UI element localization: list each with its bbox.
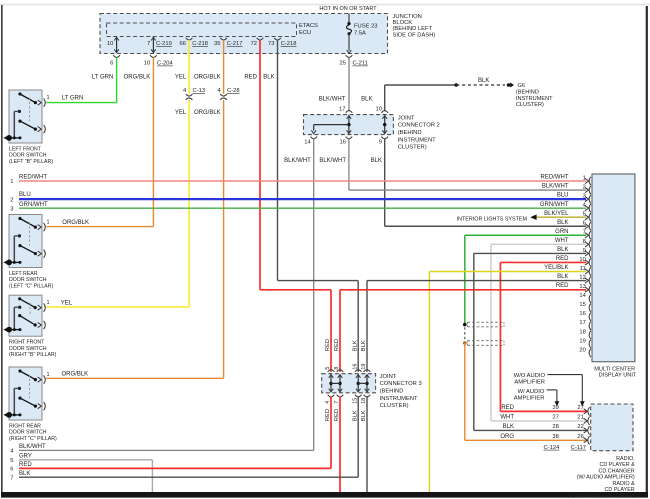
svg-text:10: 10 bbox=[107, 41, 113, 47]
svg-text:(BEHIND: (BEHIND bbox=[380, 389, 404, 395]
svg-text:ORG/BLK: ORG/BLK bbox=[124, 74, 151, 80]
svg-text:BLK: BLK bbox=[503, 424, 514, 430]
svg-text:21: 21 bbox=[577, 415, 583, 421]
svg-text:11: 11 bbox=[580, 266, 586, 272]
svg-text:RADIO &: RADIO & bbox=[613, 481, 636, 487]
svg-text:22: 22 bbox=[577, 424, 583, 430]
svg-text:19: 19 bbox=[361, 364, 367, 370]
svg-text:5: 5 bbox=[10, 458, 13, 464]
svg-text:C-211: C-211 bbox=[353, 61, 368, 67]
svg-text:ORG/BLK: ORG/BLK bbox=[62, 372, 89, 378]
svg-text:C-13: C-13 bbox=[193, 88, 206, 94]
svg-text:RED/WHT: RED/WHT bbox=[19, 174, 47, 180]
svg-text:WHT: WHT bbox=[500, 415, 514, 421]
svg-text:INTERIOR LIGHTS SYSTEM: INTERIOR LIGHTS SYSTEM bbox=[457, 216, 528, 222]
svg-text:13: 13 bbox=[579, 284, 585, 290]
svg-text:7.5A: 7.5A bbox=[354, 31, 366, 37]
svg-text:GRN/WHT: GRN/WHT bbox=[19, 202, 48, 208]
svg-text:(BEHIND: (BEHIND bbox=[398, 130, 422, 136]
svg-text:BLK: BLK bbox=[19, 471, 30, 477]
svg-text:CLUSTER): CLUSTER) bbox=[516, 102, 544, 108]
svg-text:BLK: BLK bbox=[371, 158, 382, 164]
svg-text:GRN/WHT: GRN/WHT bbox=[540, 202, 569, 208]
svg-text:8: 8 bbox=[334, 367, 340, 370]
svg-text:RED: RED bbox=[325, 339, 331, 351]
svg-text:AMPLIFIER: AMPLIFIER bbox=[514, 395, 545, 401]
svg-text:27: 27 bbox=[552, 415, 558, 421]
svg-text:10: 10 bbox=[376, 107, 382, 113]
svg-text:(LEFT "B" PILLAR): (LEFT "B" PILLAR) bbox=[9, 159, 53, 165]
svg-text:38: 38 bbox=[552, 434, 558, 440]
svg-text:16: 16 bbox=[340, 140, 346, 146]
svg-text:CD PLAYER: CD PLAYER bbox=[605, 487, 635, 493]
svg-text:CONNECTOR 2: CONNECTOR 2 bbox=[398, 123, 440, 129]
svg-text:20: 20 bbox=[579, 347, 585, 353]
svg-text:HOT IN ON OR START: HOT IN ON OR START bbox=[319, 6, 377, 12]
svg-text:73: 73 bbox=[268, 41, 274, 47]
svg-text:JOINT: JOINT bbox=[398, 115, 415, 121]
svg-text:C-204: C-204 bbox=[157, 61, 174, 67]
svg-text:CONNECTOR 3: CONNECTOR 3 bbox=[380, 381, 422, 387]
svg-text:(RIGHT "B" PILLAR): (RIGHT "B" PILLAR) bbox=[9, 352, 57, 358]
svg-text:BLK/WHT: BLK/WHT bbox=[19, 444, 46, 450]
svg-text:DOOR SWITCH: DOOR SWITCH bbox=[9, 153, 47, 159]
svg-text:DOOR SWITCH: DOOR SWITCH bbox=[9, 346, 47, 352]
svg-text:INSTRUMENT: INSTRUMENT bbox=[380, 396, 418, 402]
svg-text:BLU: BLU bbox=[19, 192, 31, 198]
svg-text:C-28: C-28 bbox=[227, 88, 240, 94]
svg-text:DISPLAY UNIT: DISPLAY UNIT bbox=[599, 373, 637, 379]
svg-text:BLK: BLK bbox=[263, 74, 274, 80]
svg-text:(W/ AUDIO AMPLIFIER): (W/ AUDIO AMPLIFIER) bbox=[577, 475, 635, 481]
svg-text:YEL/BLK: YEL/BLK bbox=[544, 265, 568, 271]
svg-text:66: 66 bbox=[180, 41, 186, 47]
svg-text:27: 27 bbox=[577, 405, 583, 411]
svg-text:39: 39 bbox=[552, 405, 558, 411]
svg-text:BLK: BLK bbox=[557, 274, 568, 280]
svg-text:(LEFT "C" PILLAR): (LEFT "C" PILLAR) bbox=[9, 283, 54, 289]
svg-text:C-218: C-218 bbox=[192, 41, 208, 47]
svg-text:DOOR SWITCH: DOOR SWITCH bbox=[9, 430, 47, 436]
svg-text:CLUSTER): CLUSTER) bbox=[398, 145, 427, 151]
svg-text:C-217: C-217 bbox=[227, 41, 243, 47]
svg-text:(W/O AUDIO AMPLIFIER): (W/O AUDIO AMPLIFIER) bbox=[572, 493, 635, 499]
svg-text:28: 28 bbox=[552, 424, 558, 430]
svg-text:RED: RED bbox=[501, 405, 514, 411]
svg-text:GRN: GRN bbox=[555, 229, 568, 235]
svg-text:LEFT REAR: LEFT REAR bbox=[9, 271, 38, 277]
svg-text:BLOCK: BLOCK bbox=[393, 20, 413, 26]
svg-text:JOINT: JOINT bbox=[380, 374, 397, 380]
svg-text:17: 17 bbox=[339, 107, 345, 113]
svg-text:RED: RED bbox=[19, 462, 32, 468]
svg-text:ORG/BLK: ORG/BLK bbox=[62, 220, 89, 226]
svg-text:19: 19 bbox=[579, 338, 585, 344]
svg-text:C-219: C-219 bbox=[156, 41, 172, 47]
svg-text:72: 72 bbox=[251, 41, 257, 47]
svg-text:RED: RED bbox=[334, 339, 340, 351]
svg-text:2: 2 bbox=[10, 197, 13, 203]
svg-text:BLK/YEL: BLK/YEL bbox=[544, 211, 569, 217]
svg-text:ORG: ORG bbox=[500, 434, 514, 440]
svg-text:14: 14 bbox=[579, 293, 586, 299]
svg-text:35: 35 bbox=[214, 41, 220, 47]
svg-text:RIGHT REAR: RIGHT REAR bbox=[9, 423, 41, 429]
svg-text:ORG/BLK: ORG/BLK bbox=[194, 110, 221, 116]
svg-text:JUNCTION: JUNCTION bbox=[393, 14, 422, 20]
svg-text:SIDE OF DASH): SIDE OF DASH) bbox=[393, 32, 436, 38]
svg-text:BLK: BLK bbox=[557, 220, 568, 226]
svg-text:YEL: YEL bbox=[175, 74, 187, 80]
svg-text:25: 25 bbox=[340, 61, 346, 67]
svg-text:BLK/WHT: BLK/WHT bbox=[542, 184, 569, 190]
svg-text:INSTRUMENT: INSTRUMENT bbox=[516, 96, 553, 102]
svg-text:15: 15 bbox=[579, 302, 585, 308]
svg-text:ORG/BLK: ORG/BLK bbox=[194, 74, 221, 80]
svg-text:1: 1 bbox=[47, 300, 50, 306]
svg-text:BLK: BLK bbox=[557, 247, 568, 253]
svg-text:10: 10 bbox=[579, 257, 585, 263]
svg-text:LT GRN: LT GRN bbox=[92, 74, 113, 80]
svg-text:BLK/WHT: BLK/WHT bbox=[319, 158, 346, 164]
svg-text:DOOR SWITCH: DOOR SWITCH bbox=[9, 277, 47, 283]
svg-text:18: 18 bbox=[579, 329, 585, 335]
svg-text:(BEHIND: (BEHIND bbox=[516, 90, 539, 96]
svg-text:BLU: BLU bbox=[557, 193, 569, 199]
svg-text:16: 16 bbox=[352, 364, 358, 370]
svg-text:BLK: BLK bbox=[361, 96, 372, 102]
svg-text:7: 7 bbox=[10, 475, 13, 481]
svg-text:1: 1 bbox=[47, 372, 50, 378]
svg-text:BLK: BLK bbox=[352, 340, 358, 351]
svg-text:W/ AUDIO: W/ AUDIO bbox=[518, 389, 545, 395]
svg-text:BLK/WHT: BLK/WHT bbox=[319, 96, 346, 102]
svg-text:CD PLAYER &: CD PLAYER & bbox=[599, 462, 635, 468]
svg-text:1: 1 bbox=[10, 179, 13, 185]
svg-text:RED: RED bbox=[556, 256, 569, 262]
svg-text:6: 6 bbox=[10, 467, 13, 473]
svg-text:RADIO,: RADIO, bbox=[616, 456, 635, 462]
svg-text:5: 5 bbox=[325, 367, 331, 370]
svg-text:14: 14 bbox=[304, 140, 311, 146]
svg-text:1: 1 bbox=[47, 95, 50, 101]
svg-text:C-117: C-117 bbox=[571, 445, 586, 451]
svg-text:ECU: ECU bbox=[299, 30, 311, 36]
svg-text:26: 26 bbox=[577, 434, 583, 440]
svg-text:RED: RED bbox=[556, 283, 569, 289]
svg-text:RIGHT FRONT: RIGHT FRONT bbox=[9, 340, 45, 346]
svg-text:6: 6 bbox=[110, 61, 113, 67]
svg-text:BLK: BLK bbox=[361, 340, 367, 351]
svg-text:RED: RED bbox=[244, 74, 257, 80]
svg-text:W/O AUDIO: W/O AUDIO bbox=[514, 373, 546, 379]
svg-text:1: 1 bbox=[47, 220, 50, 226]
svg-text:MULTI CENTER: MULTI CENTER bbox=[594, 366, 635, 372]
svg-text:10: 10 bbox=[144, 61, 150, 67]
svg-text:7: 7 bbox=[147, 41, 150, 47]
svg-text:(BEHIND LEFT: (BEHIND LEFT bbox=[393, 26, 433, 32]
svg-text:LEFT FRONT: LEFT FRONT bbox=[9, 146, 42, 152]
svg-text:FUSE 23: FUSE 23 bbox=[354, 24, 378, 30]
svg-text:17: 17 bbox=[579, 320, 585, 326]
svg-text:C-218: C-218 bbox=[281, 41, 297, 47]
svg-text:(RIGHT "C" PILLAR): (RIGHT "C" PILLAR) bbox=[9, 436, 57, 442]
svg-text:12: 12 bbox=[579, 275, 585, 281]
svg-text:16: 16 bbox=[579, 311, 585, 317]
svg-text:INSTRUMENT: INSTRUMENT bbox=[398, 137, 436, 143]
svg-text:YEL: YEL bbox=[175, 110, 187, 116]
svg-text:3: 3 bbox=[10, 206, 13, 212]
svg-text:C-124: C-124 bbox=[544, 445, 561, 451]
svg-text:YEL: YEL bbox=[61, 301, 73, 307]
svg-text:CD CHANGER: CD CHANGER bbox=[598, 468, 634, 474]
svg-text:ETACS: ETACS bbox=[299, 23, 318, 29]
svg-text:CLUSTER): CLUSTER) bbox=[380, 403, 409, 409]
svg-text:9: 9 bbox=[379, 140, 382, 146]
svg-text:BLK/WHT: BLK/WHT bbox=[284, 158, 311, 164]
svg-text:RED/WHT: RED/WHT bbox=[541, 175, 569, 181]
svg-text:GRY: GRY bbox=[19, 454, 32, 460]
svg-text:WHT: WHT bbox=[555, 238, 569, 244]
svg-text:G6: G6 bbox=[518, 83, 525, 89]
svg-text:AMPLIFIER: AMPLIFIER bbox=[514, 380, 545, 386]
svg-text:LT GRN: LT GRN bbox=[62, 96, 83, 102]
svg-text:BLK: BLK bbox=[478, 78, 489, 84]
